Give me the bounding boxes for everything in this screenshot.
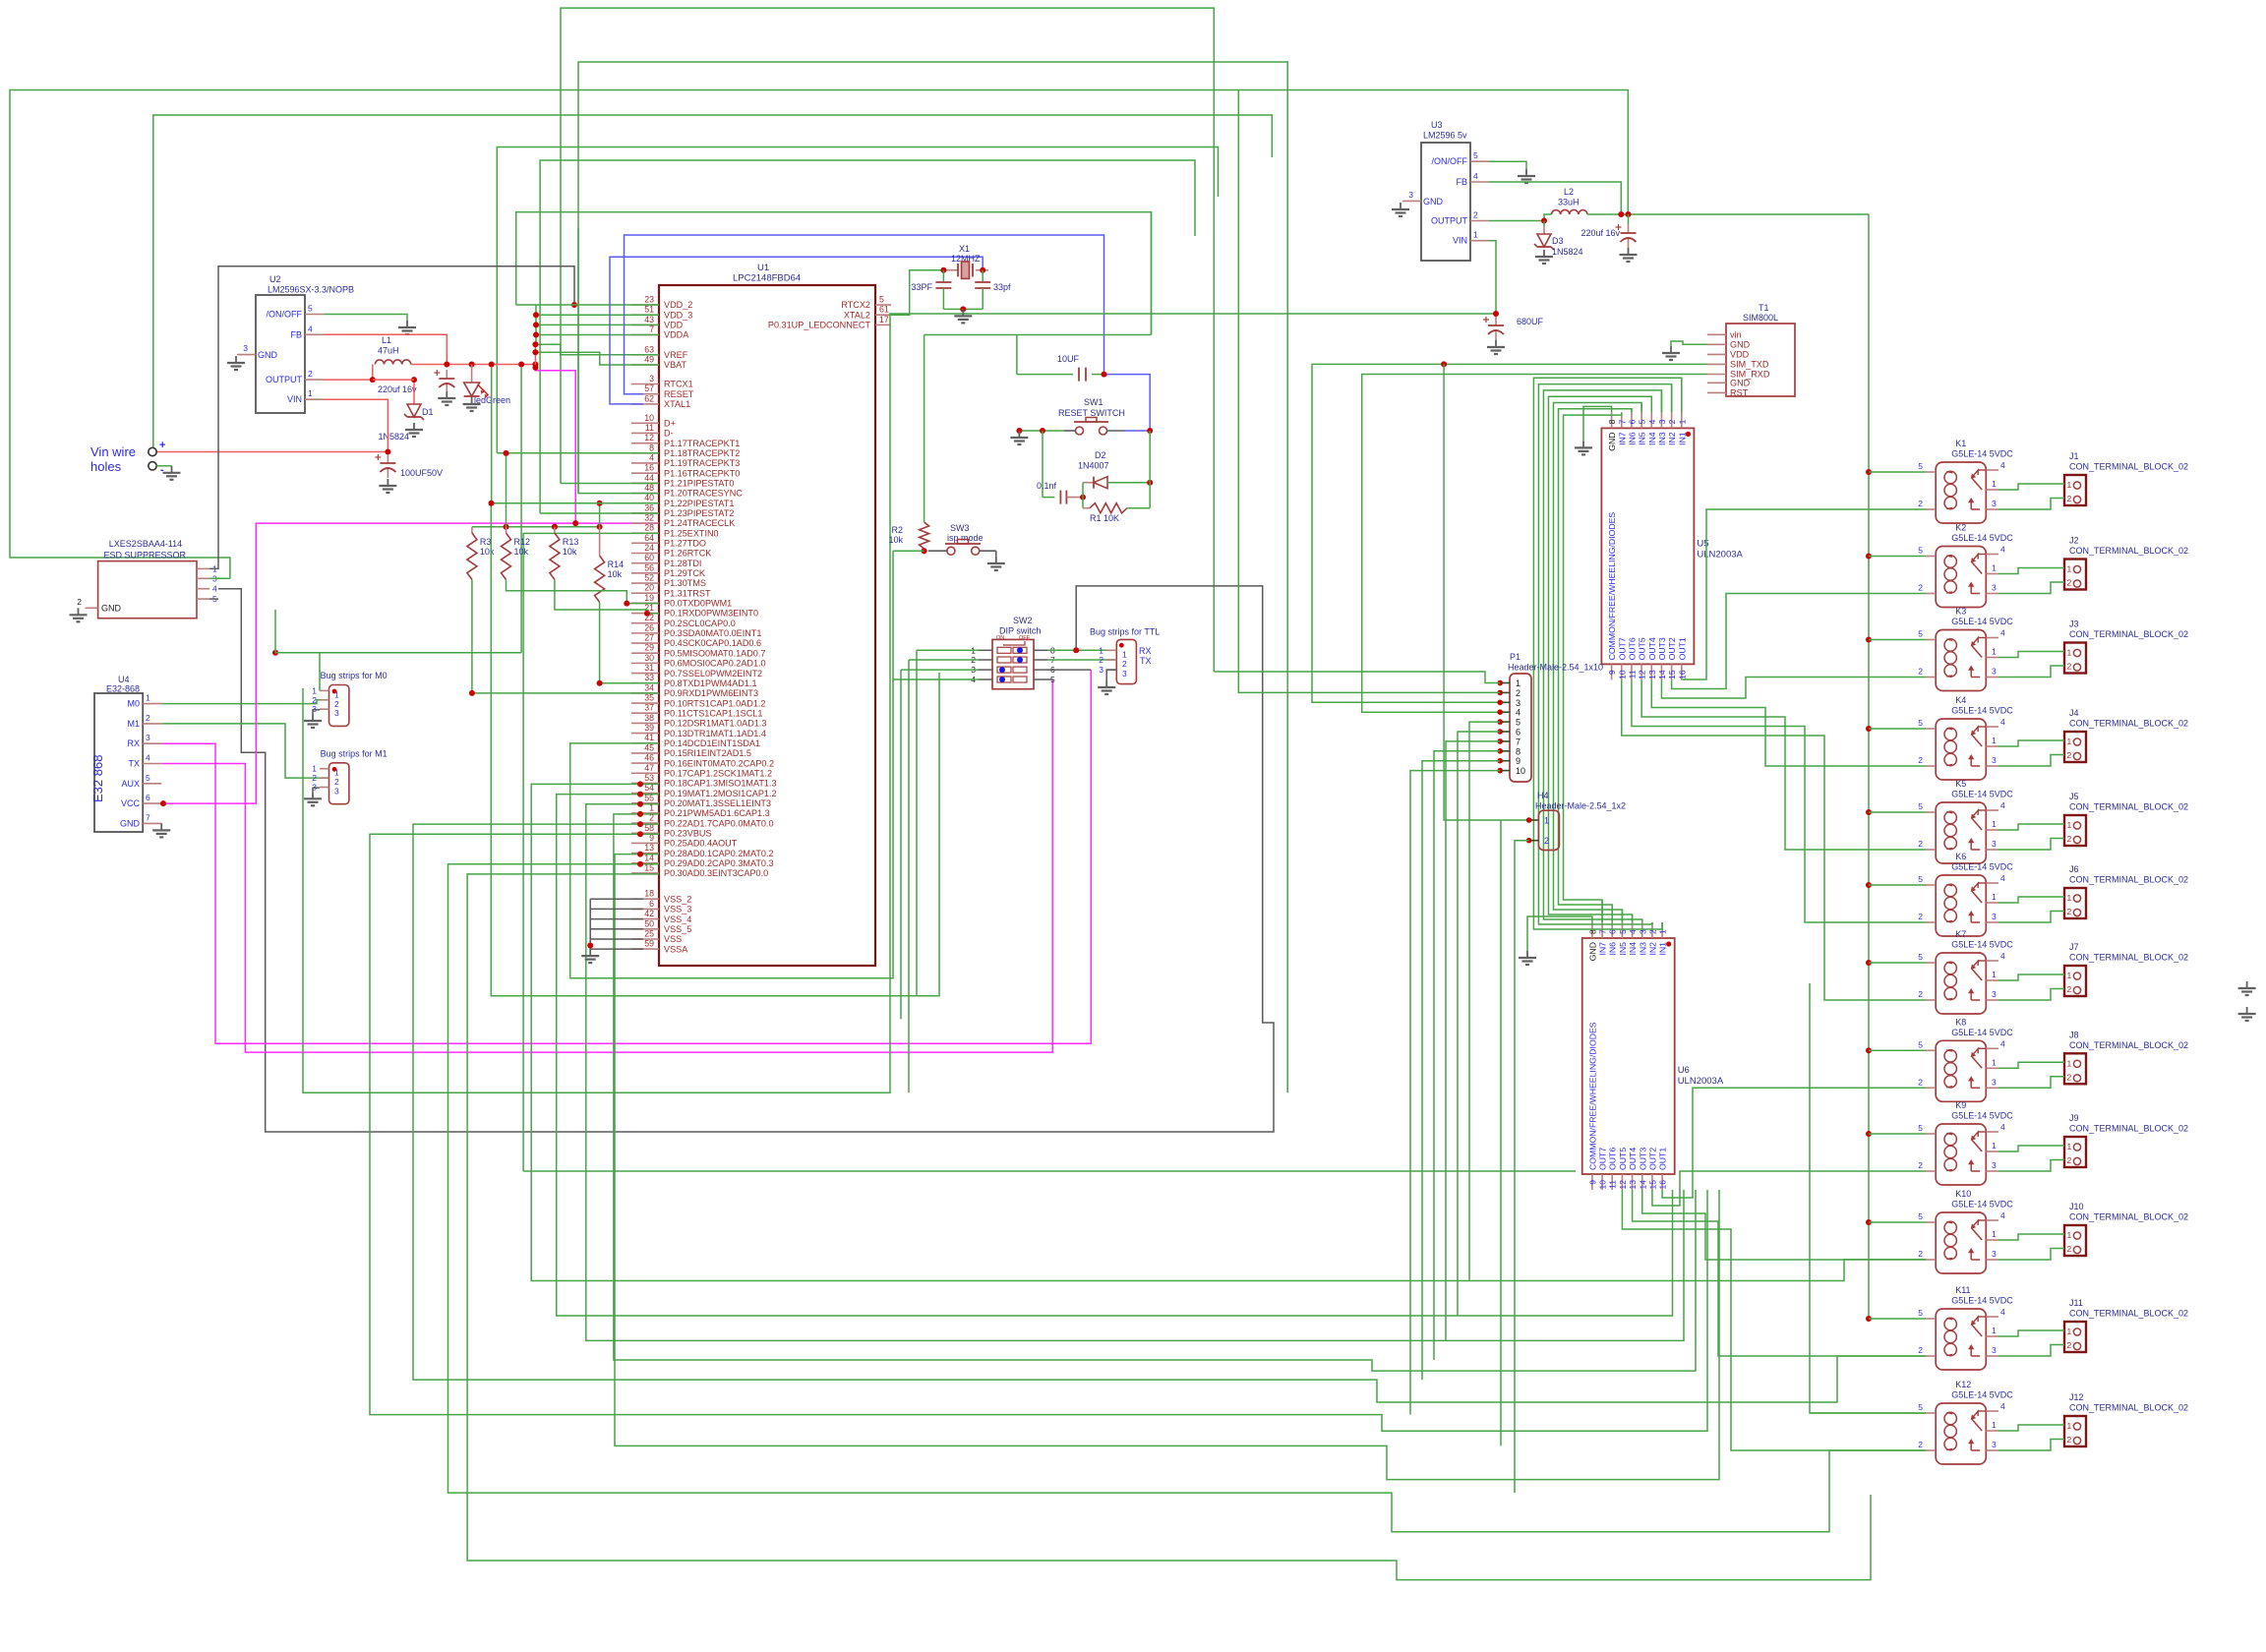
pin 5 K5 bbox=[1926, 811, 1936, 813]
wire bbox=[1869, 639, 1926, 641]
pin 2 K1 bbox=[1926, 508, 1936, 510]
wire bbox=[1998, 740, 2064, 746]
svg-text:1: 1 bbox=[2067, 1421, 2072, 1431]
svg-text:2: 2 bbox=[1918, 989, 1923, 999]
pin 2 K12 bbox=[1926, 1449, 1936, 1451]
resistor R13 10k bbox=[554, 527, 556, 533]
wire bbox=[497, 147, 1218, 453]
svg-text:CON_TERMINAL_BLOCK_02: CON_TERMINAL_BLOCK_02 bbox=[2069, 1403, 2188, 1413]
svg-text:5: 5 bbox=[1918, 1123, 1923, 1133]
pin 3 U5 IN3 bbox=[1660, 412, 1662, 428]
svg-text:2: 2 bbox=[1473, 210, 1478, 220]
pin 5 K7 bbox=[1926, 962, 1936, 964]
wire bbox=[1533, 378, 1681, 929]
pin 9 U1 P0.25AD0.4AOUT bbox=[631, 842, 659, 844]
svg-text:P0.31UP_LEDCONNECT: P0.31UP_LEDCONNECT bbox=[768, 321, 871, 330]
pin 1 K5 bbox=[1986, 829, 1998, 831]
pin 4 U4 TX bbox=[143, 763, 161, 765]
svg-text:1: 1 bbox=[1992, 647, 1997, 657]
svg-text:4: 4 bbox=[2000, 1122, 2005, 1132]
svg-text:R3: R3 bbox=[480, 537, 492, 547]
svg-text:G5LE-14 5VDC: G5LE-14 5VDC bbox=[1951, 706, 2013, 716]
pin 2 K2 bbox=[1926, 593, 1936, 595]
svg-text:R13: R13 bbox=[563, 537, 579, 547]
svg-text:RX: RX bbox=[1139, 646, 1152, 656]
pin 62 U1 XTAL1 bbox=[631, 403, 659, 405]
svg-text:CON_TERMINAL_BLOCK_02: CON_TERMINAL_BLOCK_02 bbox=[2069, 1040, 2188, 1050]
svg-text:1: 1 bbox=[2067, 1327, 2072, 1336]
pin 48 U1 P1.20TRACESYNC bbox=[631, 492, 659, 494]
svg-text:OUT4: OUT4 bbox=[1628, 1148, 1638, 1170]
svg-text:G5LE-14 5VDC: G5LE-14 5VDC bbox=[1951, 940, 2013, 950]
resistor R14 10k bbox=[599, 527, 601, 556]
svg-text:50: 50 bbox=[644, 918, 654, 928]
svg-text:1: 1 bbox=[1677, 419, 1687, 424]
resistor R1 10K bbox=[1090, 503, 1127, 513]
pin T1 SIM_RXD bbox=[1707, 374, 1726, 376]
pin 5 U5 IN5 bbox=[1640, 412, 1642, 428]
svg-text:OUT5: OUT5 bbox=[1638, 637, 1647, 660]
svg-text:1: 1 bbox=[1544, 816, 1549, 826]
svg-text:1: 1 bbox=[1992, 1057, 1997, 1067]
svg-text:P1.23PIPESTAT2: P1.23PIPESTAT2 bbox=[664, 508, 734, 518]
svg-text:R14: R14 bbox=[608, 560, 625, 569]
svg-text:4: 4 bbox=[2000, 628, 2005, 638]
svg-text:P0.28AD0.1CAP0.2MAT0.2: P0.28AD0.1CAP0.2MAT0.2 bbox=[664, 849, 774, 858]
svg-text:CON_TERMINAL_BLOCK_02: CON_TERMINAL_BLOCK_02 bbox=[2069, 719, 2188, 729]
pin 10 U6 OUT7 bbox=[1601, 1174, 1603, 1190]
junction bbox=[411, 377, 417, 383]
pin 2 bug strip M1 bbox=[320, 777, 329, 779]
pin 41 U1 P0.14DCD1EINT1SDA1 bbox=[631, 742, 659, 744]
svg-text:P1.21PIPESTAT0: P1.21PIPESTAT0 bbox=[664, 479, 734, 489]
svg-text:5: 5 bbox=[1918, 952, 1923, 962]
wire bbox=[1998, 912, 2064, 923]
junction bbox=[637, 861, 643, 867]
junction bbox=[637, 792, 643, 797]
wire bbox=[209, 577, 230, 579]
wire bbox=[1652, 1171, 1926, 1206]
svg-text:P0.23VBUS: P0.23VBUS bbox=[664, 828, 712, 838]
svg-text:46: 46 bbox=[644, 753, 654, 763]
svg-text:1: 1 bbox=[1122, 649, 1127, 659]
svg-text:3: 3 bbox=[1992, 583, 1997, 593]
svg-text:K4: K4 bbox=[1955, 695, 1966, 705]
wire bbox=[1869, 1318, 1926, 1320]
junction bbox=[637, 821, 643, 827]
wire bbox=[1998, 1234, 2064, 1240]
junction bbox=[1102, 372, 1107, 378]
svg-text:2: 2 bbox=[1918, 499, 1923, 508]
svg-text:J12: J12 bbox=[2069, 1392, 2084, 1402]
svg-text:8: 8 bbox=[649, 442, 654, 452]
wire bbox=[1362, 375, 1707, 713]
svg-text:P0.12DSR1MAT1.0AD1.3: P0.12DSR1MAT1.0AD1.3 bbox=[664, 719, 766, 729]
svg-text:1: 1 bbox=[2067, 1058, 2072, 1068]
svg-text:P1.26RTCK: P1.26RTCK bbox=[664, 549, 711, 559]
svg-text:7: 7 bbox=[1617, 419, 1627, 424]
svg-text:2: 2 bbox=[1918, 839, 1923, 849]
svg-text:220uf 16v: 220uf 16v bbox=[378, 384, 417, 394]
svg-text:SIM_TXD: SIM_TXD bbox=[1730, 360, 1769, 370]
wire bbox=[1640, 403, 1642, 413]
pin 12 U6 OUT5 bbox=[1621, 1174, 1623, 1190]
pin 5 K4 bbox=[1926, 728, 1936, 730]
wire bbox=[1559, 409, 1632, 922]
svg-text:44: 44 bbox=[644, 473, 654, 483]
svg-text:LXES2SBAA4-114: LXES2SBAA4-114 bbox=[109, 539, 182, 549]
junction bbox=[960, 306, 966, 312]
wire bbox=[924, 334, 1152, 336]
wire bbox=[1651, 679, 1926, 766]
pin 5 K11 bbox=[1926, 1318, 1936, 1320]
wire bbox=[506, 453, 507, 527]
svg-text:P0.11CTS1CAP1.1SCL1: P0.11CTS1CAP1.1SCL1 bbox=[664, 708, 762, 718]
wire bbox=[1149, 431, 1151, 508]
wire bbox=[1553, 403, 1641, 923]
wire bbox=[1214, 672, 1500, 683]
pin 2 U2 bbox=[305, 379, 324, 381]
svg-text:G5LE-14 5VDC: G5LE-14 5VDC bbox=[1951, 790, 2013, 799]
svg-text:3: 3 bbox=[1992, 1249, 1997, 1259]
wire bbox=[1538, 384, 1671, 924]
svg-text:/ON/OFF: /ON/OFF bbox=[267, 310, 303, 320]
wire bbox=[275, 652, 521, 654]
svg-text:IN3: IN3 bbox=[1638, 942, 1647, 956]
svg-text:H4: H4 bbox=[1537, 791, 1549, 800]
pin 5 K6 bbox=[1926, 884, 1936, 886]
svg-text:4: 4 bbox=[146, 753, 150, 763]
wire bbox=[1104, 375, 1151, 431]
svg-text:GND: GND bbox=[1607, 432, 1617, 450]
svg-text:P1.27TDO: P1.27TDO bbox=[664, 539, 706, 549]
svg-text:ON: ON bbox=[996, 635, 1004, 641]
pin 40 U1 P1.22PIPESTAT1 bbox=[631, 502, 659, 504]
svg-text:4: 4 bbox=[2000, 1038, 2005, 1048]
svg-text:COMMON/FREE/WHEELING/DIODES: COMMON/FREE/WHEELING/DIODES bbox=[1607, 512, 1617, 661]
svg-text:P0.29AD0.2CAP0.3MAT0.3: P0.29AD0.2CAP0.3MAT0.3 bbox=[664, 858, 774, 868]
junction bbox=[160, 800, 166, 806]
svg-text:K8: K8 bbox=[1955, 1017, 1966, 1027]
svg-text:G5LE-14 5VDC: G5LE-14 5VDC bbox=[1951, 1390, 2013, 1400]
wire bbox=[1869, 962, 1926, 964]
svg-text:4: 4 bbox=[2000, 545, 2005, 555]
wire bbox=[1583, 406, 1612, 441]
svg-text:G5LE-14 5VDC: G5LE-14 5VDC bbox=[1951, 1028, 2013, 1037]
svg-text:VBAT: VBAT bbox=[664, 360, 687, 370]
svg-text:2: 2 bbox=[2067, 1340, 2072, 1350]
wire bbox=[1082, 483, 1084, 508]
pin 13 U1 P0.28AD0.1CAP0.2MAT0.2 bbox=[631, 853, 659, 855]
wire bbox=[614, 814, 1696, 1371]
junction bbox=[922, 548, 927, 554]
wire bbox=[1312, 364, 1707, 702]
wire bbox=[540, 512, 659, 514]
junction bbox=[572, 520, 578, 526]
capacitor 220uf 16v bbox=[1628, 214, 1630, 224]
svg-text:P1.22PIPESTAT1: P1.22PIPESTAT1 bbox=[664, 499, 734, 508]
rocker bbox=[997, 677, 1011, 682]
svg-text:33pf: 33pf bbox=[993, 282, 1011, 292]
svg-text:LM2596SX-3.3/NOPB: LM2596SX-3.3/NOPB bbox=[268, 285, 354, 295]
svg-text:K3: K3 bbox=[1955, 607, 1966, 617]
svg-text:SW1: SW1 bbox=[1084, 397, 1103, 407]
wire bbox=[540, 160, 1195, 513]
junction bbox=[1866, 1219, 1872, 1225]
svg-text:29: 29 bbox=[644, 643, 654, 653]
svg-text:3: 3 bbox=[1992, 839, 1997, 849]
wire bbox=[1998, 989, 2064, 1001]
wire bbox=[535, 352, 659, 365]
svg-text:OUT4: OUT4 bbox=[1647, 637, 1657, 660]
wire bbox=[1868, 214, 1870, 1319]
pin 1 K12 bbox=[1986, 1430, 1998, 1432]
wire bbox=[1869, 811, 1926, 813]
pin 53 U1 P0.18CAP1.3MISO1MAT1.3 bbox=[631, 782, 659, 784]
wire bbox=[161, 724, 328, 778]
svg-text:5: 5 bbox=[1918, 801, 1923, 811]
svg-text:P0.21PWM5AD1.6CAP1.3: P0.21PWM5AD1.6CAP1.3 bbox=[664, 808, 770, 818]
svg-text:CON_TERMINAL_BLOCK_02: CON_TERMINAL_BLOCK_02 bbox=[2069, 546, 2188, 556]
wire bbox=[1238, 90, 1500, 693]
pin 3 K2 bbox=[1986, 593, 1998, 595]
pin 4 ESD bbox=[197, 588, 209, 590]
module T1 SIM800L bbox=[1726, 324, 1795, 396]
pin 38 U1 P0.12DSR1MAT1.0AD1.3 bbox=[631, 722, 659, 724]
pin 55 U1 P0.20MAT1.3SSEL1EINT3 bbox=[631, 802, 659, 804]
svg-text:IN7: IN7 bbox=[1617, 432, 1627, 445]
pin 1 bug strip M0 bbox=[320, 689, 329, 691]
pin 10 U1 D+ bbox=[631, 422, 659, 424]
svg-text:P1.24TRACECLK: P1.24TRACECLK bbox=[664, 518, 735, 528]
resistor R12 10k bbox=[506, 527, 507, 533]
capacitor 33pf bbox=[982, 270, 984, 282]
svg-text:1: 1 bbox=[2067, 737, 2072, 746]
pin 1 H4 bbox=[1529, 819, 1539, 821]
wire bbox=[1633, 1190, 1926, 1356]
ground bbox=[995, 557, 997, 563]
svg-text:K2: K2 bbox=[1955, 523, 1966, 533]
ground bbox=[1018, 431, 1020, 438]
wire bbox=[324, 399, 388, 451]
svg-text:32: 32 bbox=[644, 513, 654, 523]
svg-text:Bug strips for M1: Bug strips for M1 bbox=[321, 748, 388, 758]
svg-text:11: 11 bbox=[645, 423, 654, 433]
svg-text:P1.17TRACEPKT1: P1.17TRACEPKT1 bbox=[664, 439, 740, 448]
pin 6 U1 VSS_3 bbox=[631, 908, 659, 910]
svg-text:10k: 10k bbox=[608, 569, 623, 579]
svg-text:31: 31 bbox=[644, 663, 654, 673]
svg-text:D-: D- bbox=[664, 429, 674, 439]
wire bbox=[1016, 335, 1018, 375]
pin 4 U5 IN4 bbox=[1650, 412, 1652, 428]
wire bbox=[531, 784, 1926, 1280]
ground bbox=[1670, 346, 1672, 353]
junction bbox=[1866, 1047, 1872, 1053]
svg-text:P0.6MOSI0CAP0.2AD1.0: P0.6MOSI0CAP0.2AD1.0 bbox=[664, 659, 766, 669]
svg-text:J6: J6 bbox=[2069, 864, 2079, 874]
pin 37 U1 P0.11CTS1CAP1.1SCL1 bbox=[631, 712, 659, 714]
svg-text:IN5: IN5 bbox=[1618, 942, 1628, 956]
pin 26 U1 P0.3SDA0MAT0.0EINT1 bbox=[631, 632, 659, 634]
svg-text:IN4: IN4 bbox=[1647, 432, 1657, 445]
svg-text:5: 5 bbox=[1918, 874, 1923, 884]
svg-text:16: 16 bbox=[1677, 670, 1687, 679]
svg-text:10k: 10k bbox=[888, 535, 903, 545]
svg-text:1: 1 bbox=[1992, 1326, 1997, 1335]
pin 4 K6 bbox=[1986, 882, 1998, 884]
wire bbox=[1998, 1062, 2064, 1068]
svg-text:1: 1 bbox=[1516, 678, 1521, 688]
wire bbox=[995, 551, 997, 557]
junction bbox=[1866, 882, 1872, 888]
svg-text:L2: L2 bbox=[1564, 187, 1574, 197]
svg-text:3: 3 bbox=[1122, 669, 1127, 678]
pin 3 bug strip M1 bbox=[320, 787, 329, 789]
wire bbox=[411, 364, 537, 366]
wire bbox=[557, 795, 1673, 1316]
pin 1 K3 bbox=[1986, 657, 1998, 659]
wire bbox=[324, 315, 407, 322]
svg-text:P0.5MISO0MAT0.1AD0.7: P0.5MISO0MAT0.1AD0.7 bbox=[664, 648, 765, 658]
svg-text:38: 38 bbox=[644, 713, 654, 723]
svg-text:1: 1 bbox=[1992, 1420, 1997, 1430]
svg-text:VIN: VIN bbox=[1453, 236, 1467, 246]
svg-text:P1.28TDI: P1.28TDI bbox=[664, 559, 701, 568]
wire bbox=[924, 549, 925, 551]
svg-text:G5LE-14 5VDC: G5LE-14 5VDC bbox=[1951, 1111, 2013, 1121]
svg-text:IN3: IN3 bbox=[1657, 432, 1667, 445]
svg-text:P0.19MAT1.2MOSI1CAP1.2: P0.19MAT1.2MOSI1CAP1.2 bbox=[664, 789, 777, 798]
svg-text:5: 5 bbox=[308, 304, 313, 314]
junction bbox=[272, 650, 278, 656]
wire bbox=[1681, 378, 1683, 412]
svg-text:OUTPUT: OUTPUT bbox=[266, 375, 303, 384]
wire bbox=[1622, 1190, 1926, 1450]
wire bbox=[313, 788, 320, 792]
wire bbox=[1489, 182, 1621, 214]
svg-text:J9: J9 bbox=[2069, 1113, 2079, 1123]
pin 6 U4 VCC bbox=[143, 802, 161, 804]
svg-text:2: 2 bbox=[2067, 1072, 2072, 1082]
svg-text:GND: GND bbox=[258, 350, 278, 360]
wire bbox=[615, 855, 1719, 1480]
pin 4 U1 P1.19TRACEPKT3 bbox=[631, 462, 659, 464]
pin 4 K9 bbox=[1986, 1131, 1998, 1133]
connector Bug strips for M0 bbox=[329, 685, 349, 727]
pin 2 K8 bbox=[1926, 1087, 1936, 1089]
svg-text:3: 3 bbox=[1992, 912, 1997, 921]
wire bbox=[1998, 824, 2064, 830]
svg-text:P1.29TCK: P1.29TCK bbox=[664, 568, 705, 578]
pin 3 U3 GND bbox=[1402, 200, 1421, 202]
pin 5 U4 AUX bbox=[143, 783, 161, 785]
pin 57 U1 RESET bbox=[631, 393, 659, 395]
svg-text:45: 45 bbox=[644, 742, 654, 752]
pin 14 U6 OUT3 bbox=[1641, 1174, 1643, 1190]
pin 3 bug strip M0 bbox=[320, 708, 329, 710]
pin 39 U1 P0.13DTR1MAT1.1AD1.4 bbox=[631, 733, 659, 735]
pin 9 U5 COMMON/FREE/WHEELING/DIODES bbox=[1611, 664, 1613, 679]
pin 1 ESD bbox=[197, 567, 209, 569]
ground bbox=[446, 391, 447, 398]
pin 51 U1 VDD_3 bbox=[631, 314, 659, 316]
svg-text:P1.20TRACESYNC: P1.20TRACESYNC bbox=[664, 489, 743, 499]
wire bbox=[1458, 732, 1500, 1316]
svg-text:VIN: VIN bbox=[287, 394, 302, 404]
wire bbox=[1469, 722, 1500, 1280]
svg-text:14: 14 bbox=[1638, 1180, 1647, 1190]
wire bbox=[303, 314, 1496, 1092]
svg-text:1: 1 bbox=[2067, 1142, 2072, 1151]
rocker bbox=[997, 647, 1011, 653]
svg-text:OUT7: OUT7 bbox=[1598, 1148, 1608, 1170]
junction bbox=[1541, 218, 1547, 224]
regulator U3 LM2596 5v bbox=[1421, 143, 1470, 261]
pin 2 bug strip M0 bbox=[320, 699, 329, 701]
pin 1 U4 M0 bbox=[143, 703, 161, 705]
wire bbox=[1621, 412, 1623, 415]
capacitor 220uf 16v bbox=[446, 370, 447, 379]
svg-text:1N5824: 1N5824 bbox=[1552, 247, 1583, 257]
svg-text:VDD: VDD bbox=[1730, 350, 1750, 360]
svg-text:P1.18TRACEPKT2: P1.18TRACEPKT2 bbox=[664, 448, 740, 458]
wire bbox=[535, 368, 575, 523]
svg-text:P0.3SDA0MAT0.0EINT1: P0.3SDA0MAT0.0EINT1 bbox=[664, 628, 761, 638]
pin 1 K2 bbox=[1986, 573, 1998, 575]
pin 3 P1 bbox=[1500, 701, 1510, 703]
svg-text:IN5: IN5 bbox=[1638, 432, 1647, 445]
pin 1 U6 IN1 bbox=[1661, 922, 1663, 938]
wire bbox=[1106, 670, 1116, 680]
svg-text:19: 19 bbox=[644, 593, 654, 603]
ground bbox=[962, 309, 964, 316]
svg-text:40: 40 bbox=[644, 493, 654, 502]
svg-text:9: 9 bbox=[1587, 1180, 1597, 1185]
svg-text:3: 3 bbox=[146, 733, 150, 742]
svg-text:OUT6: OUT6 bbox=[1608, 1148, 1618, 1170]
diode D3 1N5824 bbox=[1543, 226, 1545, 234]
svg-text:10: 10 bbox=[1598, 1180, 1608, 1190]
resistor R2 10k bbox=[920, 522, 929, 549]
svg-text:13: 13 bbox=[1628, 1180, 1638, 1190]
ground bbox=[1628, 248, 1630, 255]
pin 4 U3 bbox=[1470, 181, 1489, 183]
ground bbox=[171, 466, 173, 473]
wire bbox=[497, 452, 659, 454]
svg-text:33PF: 33PF bbox=[911, 282, 932, 292]
wire bbox=[1444, 364, 1529, 820]
pin 60 U1 P1.28TDI bbox=[631, 562, 659, 564]
svg-text:5: 5 bbox=[146, 773, 150, 783]
pin 1 K1 bbox=[1986, 489, 1998, 491]
svg-text:15: 15 bbox=[1667, 670, 1677, 679]
pin 1 K8 bbox=[1986, 1067, 1998, 1069]
svg-text:0.1nf: 0.1nf bbox=[1037, 481, 1057, 491]
pin 16 U6 OUT1 bbox=[1661, 1174, 1663, 1190]
wire bbox=[1869, 1221, 1926, 1223]
svg-text:CON_TERMINAL_BLOCK_02: CON_TERMINAL_BLOCK_02 bbox=[2069, 802, 2188, 812]
pin T1 VDD bbox=[1707, 353, 1726, 355]
svg-text:VSS_5: VSS_5 bbox=[664, 924, 691, 934]
ground bbox=[1105, 680, 1107, 687]
svg-text:220uf 16v: 220uf 16v bbox=[1580, 228, 1620, 238]
pin 2 K11 bbox=[1926, 1355, 1936, 1357]
pin 1 K7 bbox=[1986, 979, 1998, 981]
svg-text:10k: 10k bbox=[514, 547, 529, 557]
svg-text:D2: D2 bbox=[1095, 450, 1106, 460]
pin 35 U1 P0.10RTS1CAP1.0AD1.2 bbox=[631, 702, 659, 704]
